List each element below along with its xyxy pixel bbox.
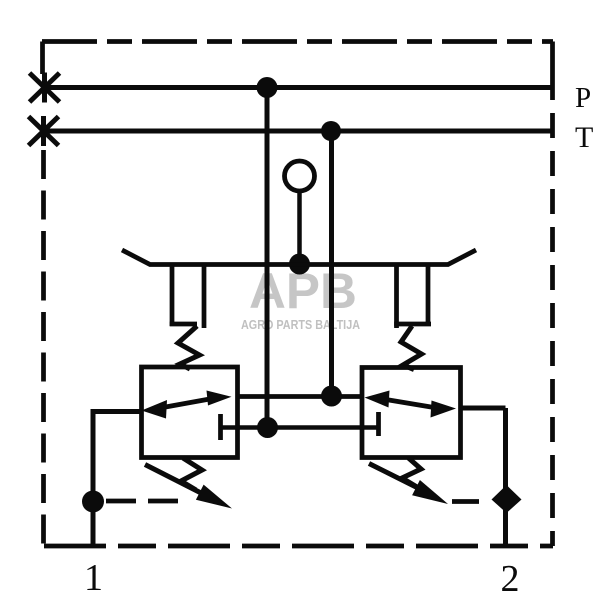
spring under V1 bbox=[181, 458, 202, 490]
enclosure border right solid stub bbox=[550, 42, 555, 101]
node lever-stem junction bbox=[289, 254, 310, 275]
node on T line bbox=[321, 121, 341, 141]
wire pilot stem bbox=[297, 191, 302, 264]
svg-text:AGRO PARTS BALTIJA: AGRO PARTS BALTIJA bbox=[241, 317, 361, 332]
wire drain dashed left bbox=[106, 499, 188, 504]
wire port 2 riser bbox=[461, 408, 506, 546]
wire T return line bbox=[44, 129, 551, 134]
wire P supply line bbox=[44, 85, 551, 90]
left centering spring bbox=[178, 326, 200, 369]
lever tilt bar bbox=[122, 250, 476, 265]
enclosure border top (dash-dot) bbox=[42, 39, 553, 44]
watermark APB logo bbox=[241, 263, 361, 332]
relief adjust arrow V2 bbox=[369, 464, 448, 505]
svg-text:1: 1 bbox=[84, 557, 103, 599]
svg-text:2: 2 bbox=[501, 558, 520, 600]
wire drain dash right bbox=[452, 499, 479, 504]
wire port 1 riser bbox=[93, 409, 142, 546]
spring under V2 bbox=[402, 458, 421, 487]
wire T drop bbox=[329, 131, 334, 396]
right actuator pocket bbox=[394, 264, 431, 328]
node port 2 bbox=[492, 485, 522, 513]
node P-drop junction bbox=[257, 417, 278, 438]
node on P line bbox=[257, 77, 278, 98]
enclosure border left top solid stub bbox=[40, 42, 45, 75]
wire V1 to T-drop node bbox=[238, 394, 362, 399]
relief adjust arrow V1 bbox=[145, 465, 232, 509]
right centering spring bbox=[401, 326, 422, 370]
enclosure border right (dashed) bbox=[550, 113, 555, 546]
node T-drop junction bbox=[321, 386, 342, 407]
svg-text:P: P bbox=[575, 82, 591, 114]
port T plug asterisk bbox=[29, 116, 59, 146]
pilot knob circle bbox=[285, 161, 315, 191]
node port 1 bbox=[82, 491, 104, 513]
enclosure border bottom (dashed) bbox=[44, 544, 553, 549]
enclosure border left (dashed) bbox=[41, 150, 46, 546]
valve V2 flow arrow bbox=[365, 391, 457, 418]
valve V1 flow arrow bbox=[142, 391, 232, 419]
valve box V1 bbox=[142, 367, 238, 458]
svg-text:T: T bbox=[575, 121, 593, 154]
left actuator pocket bbox=[170, 264, 204, 328]
valve V2 seat T-bar bbox=[376, 412, 381, 436]
wire P drop bbox=[265, 88, 270, 428]
valve V1 seat T-bar bbox=[218, 414, 223, 440]
valve box V2 bbox=[362, 368, 461, 458]
port P plug asterisk bbox=[30, 73, 60, 103]
wire pilot crossbar between seats bbox=[221, 425, 379, 430]
